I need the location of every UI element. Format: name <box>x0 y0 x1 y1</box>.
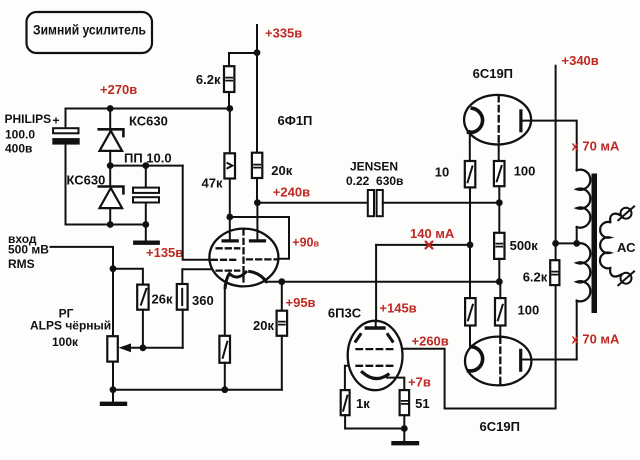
svg-text:100: 100 <box>514 163 536 178</box>
wire input <box>51 247 114 336</box>
tube U2 6С19П (upper) envelope <box>464 66 531 145</box>
svg-text:ALPS чёрный: ALPS чёрный <box>30 319 111 333</box>
svg-text:400в: 400в <box>5 142 32 156</box>
resistor R 6.2к (top) <box>196 66 234 92</box>
svg-text:PHILIPS: PHILIPS <box>5 112 52 126</box>
6С19П upper cathode arc <box>469 108 483 132</box>
svg-text:6С19П: 6С19П <box>473 66 513 81</box>
node junction 140мА wire end <box>467 242 474 249</box>
wire cathode 10 lead <box>469 131 471 161</box>
wire ground rail (135v) <box>66 224 146 226</box>
wire 140 мА horizontal <box>376 244 470 246</box>
resistor R 20к (right) <box>253 311 287 336</box>
resistor R 47к <box>202 153 236 190</box>
wire 20k bottom lead <box>256 178 258 203</box>
svg-text:6.2к: 6.2к <box>196 72 221 87</box>
resistor R cathode (unlabeled) <box>219 336 230 363</box>
wire 47k top lead <box>229 109 231 154</box>
svg-text:RMS: RMS <box>8 257 35 271</box>
node junction 47k/anode <box>226 214 233 221</box>
node junction zener2 bottom <box>107 221 114 228</box>
resistor R 360 <box>177 284 214 310</box>
node junction 20k right tap <box>278 278 285 285</box>
node junction ПП cap top <box>142 162 149 169</box>
diode D1 КС630 zener <box>99 113 168 151</box>
6П3С anode lead inside <box>375 321 377 328</box>
ground symbol 3 <box>394 429 418 444</box>
wire zener1 top lead <box>109 109 111 130</box>
ground symbol 2 <box>102 390 125 404</box>
node junction tap right <box>573 240 580 247</box>
svg-text:КС630: КС630 <box>129 113 168 128</box>
wire triode cathode rail (+95в line) <box>266 281 500 283</box>
svg-text:+145в: +145в <box>379 300 416 315</box>
wire cathode ground rail 6П3С <box>345 428 404 430</box>
node red x mark on 140мА wire <box>426 242 433 249</box>
resistor R 10 <box>435 161 476 187</box>
svg-text:0.22 630в: 0.22 630в <box>346 174 403 188</box>
transformer T1 primary winding <box>577 170 591 360</box>
capacitor C1 electrolytic plates <box>52 128 79 144</box>
wire 100 bottom lead <box>498 186 500 203</box>
node junction 6.2k/47k <box>226 105 233 112</box>
wire cathode to 51 <box>387 378 404 391</box>
wire center tap <box>556 242 577 244</box>
6П3С beam plate right <box>388 335 393 342</box>
transformer secondary winding <box>600 214 621 277</box>
svg-text:20к: 20к <box>271 163 292 178</box>
node junction zener1 top <box>107 105 114 112</box>
svg-text:500к: 500к <box>510 238 539 253</box>
wire 100 lower-right top lead <box>499 282 501 298</box>
svg-text:+270в: +270в <box>100 82 137 97</box>
svg-text:JENSEN: JENSEN <box>350 159 398 173</box>
wire zener1 bottom lead <box>109 151 111 166</box>
node junction 51/gnd <box>401 425 408 432</box>
6Ф1П pentode grid g2 dashed <box>217 247 240 249</box>
input labels вход 500 мВ RMS <box>8 232 49 271</box>
output terminal top <box>618 206 634 220</box>
node junction ПП cap bottom <box>142 221 149 228</box>
svg-text:500 мВ: 500 мВ <box>8 243 49 257</box>
wire 6.2k top branch <box>229 53 257 66</box>
svg-text:360: 360 <box>192 293 214 308</box>
svg-text:+335в: +335в <box>265 26 302 41</box>
6С19П lower cathode arc <box>469 347 483 371</box>
6Ф1П pentode cathode arc <box>225 272 246 288</box>
node junction at 6.2k tap <box>254 49 261 56</box>
title box "Зимний усилитель" <box>27 12 153 53</box>
capacitor C ПП 10.0 <box>124 151 172 225</box>
wire 6П3С plate lead <box>375 245 377 326</box>
tube U3 6П3С envelope <box>328 306 403 391</box>
6Ф1П pentode g3 dashed <box>217 269 240 271</box>
6С19П lower anode bar <box>519 350 522 370</box>
svg-text:6Ф1П: 6Ф1П <box>278 113 313 128</box>
6П3С grid g1 dashed <box>357 348 396 350</box>
svg-text:+95в: +95в <box>286 295 316 310</box>
wire 51 bottom lead <box>403 415 405 428</box>
svg-text:+7в: +7в <box>408 375 431 390</box>
wire 500k bottom lead <box>498 259 500 282</box>
diode D2 КС630 zener <box>67 173 124 209</box>
resistor R 26к <box>137 285 173 310</box>
svg-text:140 мА: 140 мА <box>410 226 455 241</box>
node junction ПП rail left <box>107 162 114 169</box>
wire 360 bottom lead <box>182 310 184 348</box>
node junction 26k/wiper <box>140 344 147 351</box>
resistor R 1к <box>341 390 371 415</box>
6П3С beam plate left <box>356 335 361 342</box>
wire plate to Jensen cap <box>257 202 367 204</box>
6С19П upper grid dashed <box>498 96 500 144</box>
svg-text:100.0: 100.0 <box>5 127 35 141</box>
svg-text:+240в: +240в <box>273 185 310 200</box>
svg-text:+135в: +135в <box>146 245 183 260</box>
svg-text:x 70 мА: x 70 мА <box>572 138 621 153</box>
wire 500k top lead <box>498 203 500 233</box>
wire +335в vertical <box>256 25 258 153</box>
wire lower plate to transformer <box>521 359 577 361</box>
6Ф1П center divider dashed <box>242 230 244 286</box>
resistor R 6.2к (right) <box>523 260 560 285</box>
wire cathode resistor bottom lead <box>224 363 226 390</box>
wire triode anode lead <box>256 203 258 239</box>
6П3С cathode arc <box>362 372 388 378</box>
wire lower grid lead <box>499 326 501 338</box>
svg-text:100к: 100к <box>52 335 79 349</box>
svg-text:Зимний усилитель: Зимний усилитель <box>33 22 146 38</box>
resistor R 100 (lower right) <box>495 298 539 325</box>
svg-text:+340в: +340в <box>562 53 599 68</box>
svg-text:x 70 мА: x 70 мА <box>572 332 621 347</box>
capacitor C PHILIPS 100.0 400в labels <box>5 112 60 156</box>
potentiometer РГ ALPS 100к <box>30 307 118 362</box>
wire grid feed (rail to pentode grid) <box>183 166 212 260</box>
6Ф1П triode grid dashed <box>247 258 278 260</box>
wire g2 to 1k <box>345 366 349 390</box>
svg-text:20к: 20к <box>253 318 274 333</box>
node junction cathode res/gnd rail <box>221 386 228 393</box>
wire B+ below 6.2k to grid loop <box>402 285 555 408</box>
6Ф1П triode cathode arc <box>250 272 267 282</box>
wire pot wiper arrow <box>119 343 183 352</box>
capacitor C JENSEN 0.22 630в <box>346 159 403 216</box>
wire zener2 bottom lead <box>109 208 111 224</box>
node junction 20k/plate/output <box>254 199 261 206</box>
6С19П upper anode bar <box>519 111 522 131</box>
wire 10 bottom lead <box>469 187 471 298</box>
wire upper plate to transformer <box>521 121 577 171</box>
svg-text:6.2к: 6.2к <box>523 269 548 284</box>
wire zener2 top lead <box>109 166 111 187</box>
svg-text:10: 10 <box>435 164 449 179</box>
svg-text:+90в: +90в <box>292 235 319 249</box>
wire pentode g3 to 360 <box>182 269 212 284</box>
svg-text:ПП 10.0: ПП 10.0 <box>124 151 172 166</box>
transformer core bar <box>592 174 598 314</box>
wire coupling box (plate to triode grid) <box>230 217 289 259</box>
ground symbol 1 <box>135 225 157 243</box>
svg-text:+: + <box>53 114 60 128</box>
resistor R 500к <box>494 233 538 259</box>
resistor R (lower left, unlabeled) <box>465 298 476 325</box>
wire ПП rail <box>110 165 183 167</box>
wire grid 100 lead <box>498 144 500 161</box>
svg-text:6П3С: 6П3С <box>328 306 362 321</box>
wire philips cap bottom lead <box>65 145 67 225</box>
wire 20k right bottom lead <box>281 336 283 390</box>
wire philips cap top lead <box>65 109 67 129</box>
svg-text:1к: 1к <box>356 396 370 411</box>
node junction 500k/100/cathode-rail <box>496 278 503 285</box>
wire 26k bottom lead <box>142 310 144 348</box>
wire 47k bottom lead <box>229 179 231 218</box>
svg-text:47к: 47к <box>202 176 223 191</box>
wire B+ vertical <box>555 66 557 261</box>
wire cathode resistor top lead <box>224 285 226 336</box>
6П3С anode bar <box>366 326 384 329</box>
wire cathode ground rail <box>113 389 282 391</box>
wire left anode lead <box>229 217 231 239</box>
svg-text:КС630: КС630 <box>67 173 106 188</box>
node junction pot/gnd <box>110 386 117 393</box>
node junction B+/transformer tap left <box>552 240 559 247</box>
wire 6.2k bottom lead <box>228 92 230 109</box>
wire pot bottom lead <box>112 362 114 390</box>
wire 1k bottom lead <box>344 415 346 428</box>
svg-text:100: 100 <box>518 303 540 318</box>
wire lower cathode lead <box>469 326 471 348</box>
resistor R 20к (top) <box>252 153 293 178</box>
resistor R 51 <box>400 390 430 415</box>
resistor R 100 (upper) <box>494 161 536 186</box>
svg-text:51: 51 <box>415 396 429 411</box>
wire 20k right top lead <box>281 282 283 311</box>
node junction 100/500k <box>496 199 503 206</box>
svg-text:+260в: +260в <box>412 333 449 348</box>
node junction input/26k <box>110 265 117 272</box>
svg-text:АС: АС <box>617 240 636 255</box>
6Ф1П pentode grid g1 dashed <box>212 259 239 261</box>
wire Jensen to 500k node <box>383 202 500 204</box>
tube U4 6С19П (lower) envelope <box>465 337 531 434</box>
wire 26k top branch <box>113 269 143 285</box>
svg-text:6С19П: 6С19П <box>480 419 520 434</box>
6Ф1П pentode anode bar <box>223 239 237 242</box>
6Ф1П triode anode bar <box>251 239 265 242</box>
tube U1 6Ф1П envelope <box>209 113 312 286</box>
6С19П lower grid dashed <box>499 337 501 385</box>
wire +270в rail <box>66 108 230 110</box>
svg-text:26к: 26к <box>152 292 173 307</box>
output terminal bottom <box>618 271 634 285</box>
6П3С grid g2 dashed <box>357 365 396 367</box>
